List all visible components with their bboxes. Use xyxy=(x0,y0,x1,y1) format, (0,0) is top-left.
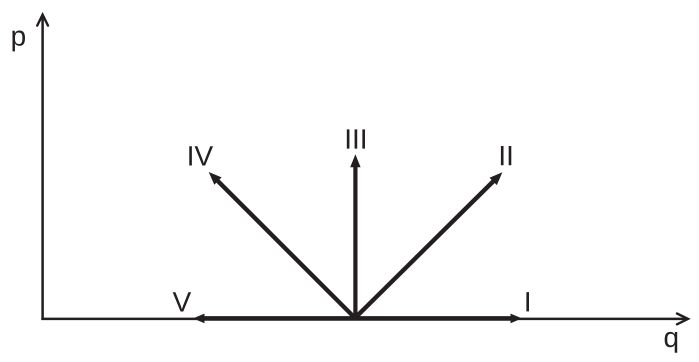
vector I arrowhead xyxy=(511,314,523,324)
label V xyxy=(173,292,191,311)
vector I (origin to right) xyxy=(355,316,513,321)
label p xyxy=(12,31,25,52)
label I xyxy=(526,292,529,311)
vector V arrowhead xyxy=(193,314,205,324)
vector V (origin to left) xyxy=(203,316,356,321)
vector III (origin straight up) xyxy=(353,165,357,318)
label III xyxy=(347,129,365,148)
q axis arrowhead (open chevron) xyxy=(677,314,688,325)
label IV xyxy=(189,146,213,165)
label q xyxy=(665,332,678,353)
q axis (horizontal) xyxy=(41,318,686,321)
p axis (vertical) xyxy=(41,16,44,320)
vector III arrowhead xyxy=(350,154,360,167)
vector IV arrowhead xyxy=(209,172,222,185)
p axis arrowhead (open chevron) xyxy=(37,15,48,26)
label II xyxy=(501,146,511,165)
vector II arrowhead xyxy=(490,172,503,185)
vector II (origin up-right diagonal) xyxy=(355,180,495,318)
vector IV (origin up-left diagonal) xyxy=(217,180,356,318)
